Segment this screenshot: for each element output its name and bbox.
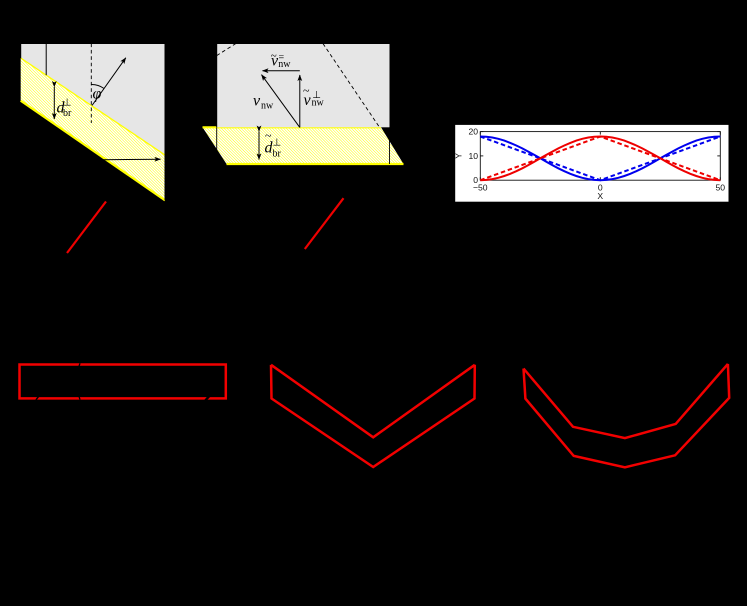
svg-text:X: X [597, 191, 603, 201]
svg-text:br: br [63, 108, 72, 119]
svg-text:⊥: ⊥ [63, 98, 72, 109]
svg-text:nw: nw [261, 101, 274, 112]
svg-text:~: ~ [271, 50, 277, 62]
svg-text:v: v [253, 93, 261, 110]
svg-text:−50: −50 [473, 183, 488, 193]
svg-text:~: ~ [303, 84, 310, 98]
svg-text:Y: Y [454, 153, 464, 159]
svg-text:φ: φ [93, 86, 102, 103]
svg-text:nw: nw [278, 59, 291, 70]
svg-text:10: 10 [468, 151, 478, 161]
svg-text:~: ~ [265, 129, 272, 143]
svg-text:br: br [273, 149, 282, 160]
svg-text:20: 20 [468, 127, 478, 137]
svg-text:50: 50 [716, 183, 726, 193]
svg-text:⊥: ⊥ [273, 138, 282, 149]
svg-text:nw: nw [312, 98, 325, 109]
